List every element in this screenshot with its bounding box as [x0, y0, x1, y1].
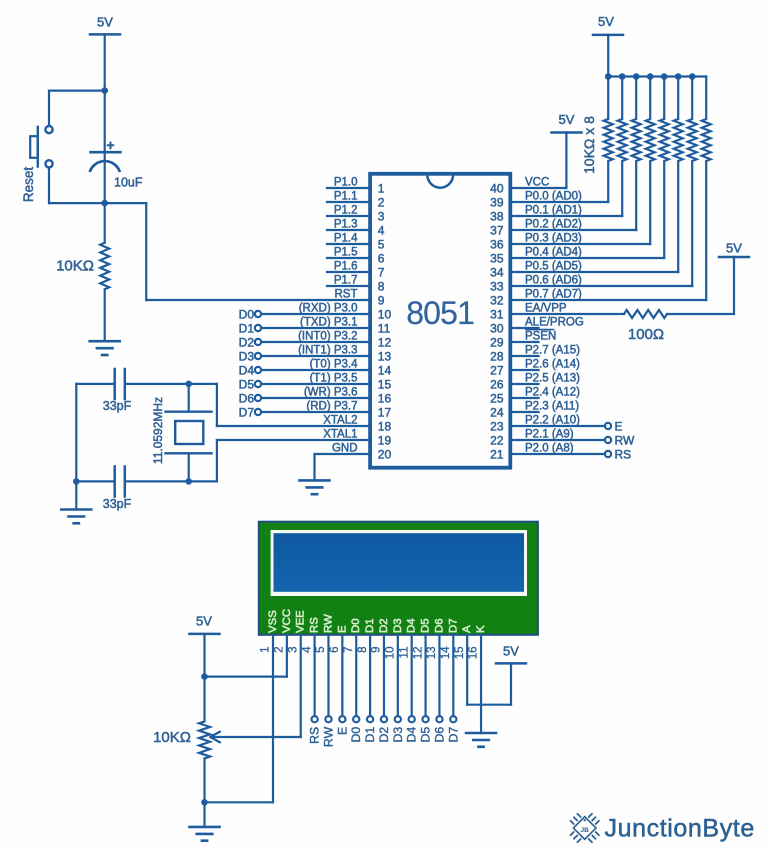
svg-text:P0.0 (AD0): P0.0 (AD0): [525, 191, 582, 203]
svg-text:5V: 5V: [503, 644, 519, 659]
svg-text:D2: D2: [239, 335, 255, 349]
svg-text:3: 3: [378, 210, 385, 224]
svg-text:D0: D0: [349, 727, 363, 743]
svg-text:29: 29: [490, 336, 504, 350]
svg-text:10KΩ: 10KΩ: [56, 258, 94, 275]
svg-text:P0.6 (AD6): P0.6 (AD6): [525, 275, 582, 287]
svg-text:P1.2: P1.2: [334, 205, 358, 217]
svg-text:6: 6: [329, 647, 341, 653]
svg-text:24: 24: [490, 406, 504, 420]
svg-text:PSEN: PSEN: [525, 331, 556, 343]
svg-text:4: 4: [378, 224, 385, 238]
svg-text:10: 10: [378, 308, 392, 322]
svg-text:9: 9: [378, 294, 385, 308]
svg-text:ALE/PROG: ALE/PROG: [525, 317, 584, 329]
svg-text:13: 13: [426, 647, 438, 660]
svg-text:RS: RS: [308, 727, 322, 744]
svg-text:18: 18: [378, 420, 392, 434]
svg-text:22: 22: [490, 434, 504, 448]
svg-text:GND: GND: [332, 443, 358, 455]
svg-text:39: 39: [490, 196, 504, 210]
svg-text:3: 3: [287, 647, 299, 653]
svg-text:P2.2 (A10): P2.2 (A10): [525, 415, 580, 427]
svg-text:VCC: VCC: [281, 609, 293, 633]
svg-text:(T0) P3.4: (T0) P3.4: [310, 359, 359, 371]
svg-text:(RD) P3.7: (RD) P3.7: [306, 401, 357, 413]
svg-text:RS: RS: [615, 447, 632, 461]
svg-text:P1.5: P1.5: [334, 247, 358, 259]
svg-text:D4: D4: [239, 363, 255, 377]
svg-text:5: 5: [378, 238, 385, 252]
svg-text:17: 17: [378, 406, 392, 420]
svg-text:D6: D6: [432, 727, 446, 743]
svg-text:5V: 5V: [97, 15, 113, 30]
svg-text:P2.1 (A9): P2.1 (A9): [525, 429, 574, 441]
svg-text:10uF: 10uF: [114, 175, 143, 189]
svg-text:8: 8: [357, 647, 369, 653]
svg-text:D3: D3: [391, 727, 405, 743]
svg-text:P1.0: P1.0: [334, 177, 358, 189]
svg-text:RST: RST: [335, 289, 358, 301]
svg-text:12: 12: [412, 647, 424, 660]
svg-text:1: 1: [260, 647, 272, 653]
svg-text:31: 31: [490, 308, 504, 322]
svg-text:5: 5: [315, 647, 327, 653]
svg-text:11: 11: [378, 322, 391, 336]
svg-text:16: 16: [468, 647, 480, 660]
svg-text:37: 37: [490, 224, 504, 238]
svg-text:D1: D1: [239, 321, 255, 335]
svg-text:D1: D1: [363, 727, 377, 743]
svg-text:P0.1 (AD1): P0.1 (AD1): [525, 205, 582, 217]
svg-text:D2: D2: [377, 727, 391, 743]
svg-text:JunctionByte: JunctionByte: [605, 815, 755, 843]
svg-text:D7: D7: [447, 618, 459, 633]
svg-text:D4: D4: [406, 618, 418, 633]
svg-text:2: 2: [274, 647, 286, 653]
svg-text:P1.1: P1.1: [334, 191, 358, 203]
svg-text:D5: D5: [239, 377, 255, 391]
svg-text:D3: D3: [392, 618, 404, 633]
svg-text:10KΩ: 10KΩ: [153, 729, 191, 746]
svg-text:11.0592MHz: 11.0592MHz: [151, 397, 165, 464]
svg-text:35: 35: [490, 252, 504, 266]
svg-text:15: 15: [454, 647, 466, 660]
svg-text:16: 16: [378, 392, 392, 406]
svg-text:34: 34: [490, 266, 504, 280]
svg-text:(INT1) P3.3: (INT1) P3.3: [298, 345, 357, 357]
svg-text:33: 33: [490, 280, 504, 294]
svg-text:25: 25: [490, 392, 504, 406]
svg-text:2: 2: [378, 196, 385, 210]
svg-text:13: 13: [378, 350, 392, 364]
svg-text:RW: RW: [322, 726, 336, 747]
svg-text:+: +: [106, 137, 114, 153]
svg-text:D3: D3: [239, 349, 255, 363]
svg-text:P1.3: P1.3: [334, 219, 358, 231]
svg-text:D7: D7: [446, 727, 460, 743]
svg-text:P0.3 (AD3): P0.3 (AD3): [525, 233, 582, 245]
svg-text:23: 23: [490, 420, 504, 434]
svg-text:30: 30: [490, 322, 504, 336]
svg-text:26: 26: [490, 378, 504, 392]
svg-text:XTAL2: XTAL2: [323, 415, 357, 427]
svg-text:D6: D6: [239, 391, 255, 405]
svg-text:11: 11: [398, 647, 410, 659]
svg-text:P2.5 (A13): P2.5 (A13): [525, 373, 580, 385]
svg-text:(RXD) P3.0: (RXD) P3.0: [299, 303, 358, 315]
svg-text:32: 32: [490, 294, 504, 308]
svg-text:VEE: VEE: [295, 610, 307, 633]
svg-text:JB: JB: [581, 827, 590, 834]
svg-text:D7: D7: [239, 405, 255, 419]
svg-text:D6: D6: [433, 618, 445, 633]
svg-text:D0: D0: [239, 307, 255, 321]
svg-text:VCC: VCC: [525, 177, 549, 189]
svg-text:10: 10: [385, 647, 397, 660]
svg-text:33pF: 33pF: [103, 497, 132, 511]
svg-text:RW: RW: [615, 433, 635, 447]
svg-text:9: 9: [371, 647, 383, 653]
svg-text:14: 14: [440, 646, 452, 659]
svg-text:5V: 5V: [196, 614, 212, 629]
svg-text:P0.4 (AD4): P0.4 (AD4): [525, 247, 582, 259]
svg-text:D2: D2: [378, 618, 390, 633]
svg-text:XTAL1: XTAL1: [323, 429, 357, 441]
svg-text:P2.7 (A15): P2.7 (A15): [525, 345, 580, 357]
svg-text:D1: D1: [364, 618, 376, 633]
svg-text:8: 8: [378, 280, 385, 294]
svg-text:38: 38: [490, 210, 504, 224]
svg-text:100Ω: 100Ω: [628, 326, 664, 343]
svg-text:D4: D4: [405, 727, 419, 743]
svg-text:P0.5 (AD5): P0.5 (AD5): [525, 261, 582, 273]
svg-text:P2.4 (A12): P2.4 (A12): [525, 387, 580, 399]
svg-text:D0: D0: [350, 618, 362, 633]
svg-text:D5: D5: [419, 727, 433, 743]
svg-text:7: 7: [343, 647, 355, 653]
svg-text:(TXD) P3.1: (TXD) P3.1: [300, 317, 358, 329]
svg-text:RS: RS: [309, 617, 321, 633]
svg-text:21: 21: [490, 448, 504, 462]
svg-text:VSS: VSS: [267, 610, 279, 633]
svg-text:P2.0 (A8): P2.0 (A8): [525, 443, 574, 455]
svg-text:27: 27: [490, 364, 504, 378]
svg-text:5V: 5V: [598, 14, 614, 29]
svg-text:RW: RW: [323, 614, 335, 633]
svg-text:28: 28: [490, 350, 504, 364]
svg-text:EA/VPP: EA/VPP: [525, 303, 567, 315]
svg-text:Reset: Reset: [21, 167, 36, 203]
svg-text:12: 12: [378, 336, 392, 350]
svg-text:19: 19: [378, 434, 392, 448]
svg-text:7: 7: [378, 266, 385, 280]
svg-text:(T1) P3.5: (T1) P3.5: [310, 373, 358, 385]
svg-text:E: E: [335, 727, 349, 735]
svg-text:20: 20: [378, 448, 392, 462]
svg-text:1: 1: [378, 182, 385, 196]
svg-text:E: E: [615, 419, 623, 433]
svg-text:P1.6: P1.6: [334, 261, 358, 273]
svg-text:P1.4: P1.4: [334, 233, 358, 245]
svg-text:K: K: [475, 625, 487, 633]
svg-text:5V: 5V: [559, 112, 575, 127]
svg-text:14: 14: [378, 364, 392, 378]
svg-text:(INT0) P3.2: (INT0) P3.2: [298, 331, 357, 343]
svg-text:6: 6: [378, 252, 385, 266]
svg-text:8051: 8051: [406, 295, 474, 331]
svg-text:33pF: 33pF: [103, 399, 132, 413]
svg-text:40: 40: [490, 182, 504, 196]
svg-text:P0.7 (AD7): P0.7 (AD7): [525, 289, 582, 301]
svg-text:P2.6 (A14): P2.6 (A14): [525, 359, 580, 371]
svg-text:(WR) P3.6: (WR) P3.6: [304, 387, 358, 399]
svg-text:D5: D5: [420, 618, 432, 633]
svg-text:36: 36: [490, 238, 504, 252]
svg-text:4: 4: [301, 646, 313, 653]
svg-text:10KΩ x 8: 10KΩ x 8: [581, 116, 597, 174]
svg-text:15: 15: [378, 378, 392, 392]
svg-text:P0.2 (AD2): P0.2 (AD2): [525, 219, 582, 231]
svg-text:P2.3 (A11): P2.3 (A11): [525, 401, 579, 413]
svg-text:E: E: [336, 625, 348, 633]
svg-text:5V: 5V: [726, 241, 742, 256]
svg-text:P1.7: P1.7: [334, 275, 358, 287]
svg-text:A: A: [461, 625, 473, 633]
